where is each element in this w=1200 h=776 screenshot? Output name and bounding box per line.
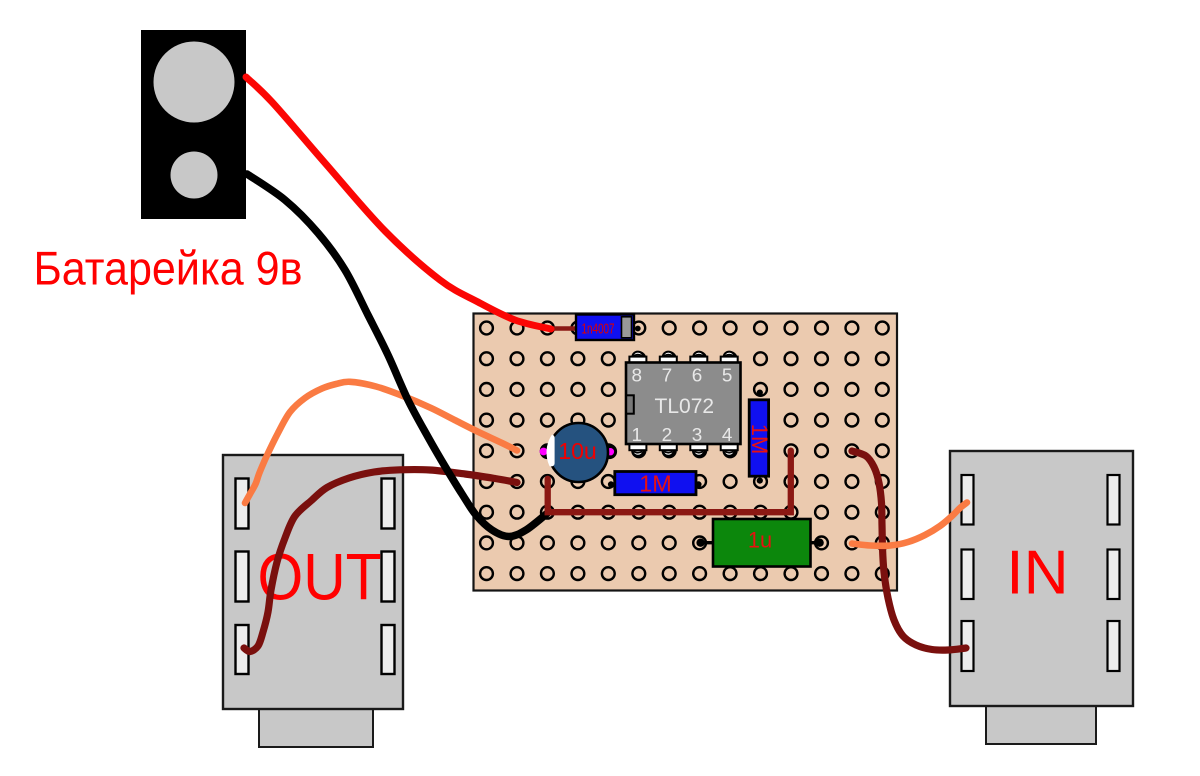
jack J2 IN lug slot (right top) [1108,475,1120,525]
capacitor C1 negative lead [540,448,548,456]
diode D1 cathode lead solder dot [635,326,641,332]
resistor R2 1M body (vertical) [749,400,768,476]
jack J1 OUT lug slot (right middle) [382,552,395,602]
jack J1 OUT lug slot (left top) [236,479,249,529]
wire: board (col2,row6) to jack J1 OUT tip lug (dark red) [244,470,517,652]
resistor R1 1M body (horizontal) [615,472,696,495]
jack J1 OUT lug slot (right top) [382,479,395,529]
capacitor C1 minus stripe [543,435,555,467]
svg-text:1u: 1u [748,528,772,553]
svg-text:7: 7 [662,366,673,387]
wire: board (col2,row5) to jack J1 OUT sleeve lug (orange) [245,382,517,503]
jack J2 IN lug slot (left middle) [962,550,974,600]
op-amp U1 pin-1 end notch [626,395,634,413]
jack J2 IN lug slot (left top) [962,475,974,525]
battery BT1 9V snap connector body [141,30,246,219]
jack J2 IN body [950,451,1133,706]
op-amp U1 pin 3 (bottom row) [690,443,707,456]
capacitor C2 left lead solder dot [696,539,704,547]
capacitor C1 positive lead hole (col5,row5) [602,444,617,459]
battery BT1 negative terminal [171,152,218,199]
op-amp U1 pin 7 (top row) [660,352,677,364]
svg-text:6: 6 [692,366,703,387]
resistor R1 left lead solder dot [608,481,614,487]
jack J1 OUT lug slot (left middle) [236,552,249,602]
diode D1 body [576,315,634,341]
wire: battery plus to diode D1 anode (red) [246,77,551,329]
op-amp U1 pin 8 (top row) [629,352,646,364]
svg-text:1n4007: 1n4007 [582,322,615,338]
op-amp U1 pin 5 (top row) [721,352,738,364]
svg-text:2: 2 [662,425,673,446]
op-amp U1 pin 2 (bottom row) [660,443,677,456]
jack J1 OUT lug slot (right bottom) [382,625,395,674]
capacitor C1 negative lead hole (col3,row5) [540,444,555,459]
svg-text:8: 8 [632,366,643,387]
jack J2 IN mounting tab [986,704,1096,744]
diode D1 cathode band [622,317,632,338]
jack J2 IN lug slot (right bottom) [1108,621,1120,671]
capacitor C2 right lead solder dot [815,539,823,547]
svg-text:Батарейка 9в: Батарейка 9в [34,243,303,296]
perfboard hole grid [480,322,889,580]
capacitor C1 positive lead [607,448,614,455]
wire: ground rail from node (col3,row6) to node (col11,row5) (dark red) [548,451,791,513]
svg-text:TL072: TL072 [655,395,715,418]
svg-text:10u: 10u [558,438,597,464]
svg-text:IN: IN [1006,539,1068,608]
op-amp U1 pin 1 (bottom row) [629,443,646,456]
svg-text:3: 3 [692,425,703,446]
op-amp U1 pin 6 (top row) [690,352,707,364]
jack J1 OUT body [223,455,403,709]
op-amp U1 TL072 body [626,363,741,445]
jack J2 IN lug slot (left bottom) [962,621,974,671]
svg-text:5: 5 [722,366,733,387]
wire: battery minus to ground junction (black) [247,174,547,537]
capacitor C2 right lead [810,541,820,544]
capacitor C2 1u film body [713,519,811,567]
resistor R2 bottom lead solder dot [757,478,763,484]
svg-text:4: 4 [722,425,733,446]
jack J2 IN lug slot (right middle) [1108,550,1120,600]
wire: board (col13,row5) to jack J2 IN tip lug (dark red) [852,451,966,650]
perfboard [474,314,898,591]
wire: diode D1 anode lead to node at hole (col3,row1) [549,326,578,331]
op-amp U1 pin 4 (bottom row) [721,443,738,456]
svg-text:1M: 1M [639,470,672,496]
svg-text:1: 1 [632,425,643,446]
jack J1 OUT lug slot (left bottom) [236,625,249,674]
resistor R2 top lead solder dot [757,390,763,396]
wire: board (col13,row8) to jack J2 IN sleeve lug (orange) [852,503,967,546]
svg-text:1M: 1M [747,424,772,455]
jack J1 OUT mounting tab [259,705,373,747]
battery BT1 positive terminal [154,42,235,123]
resistor R1 right lead solder dot [695,481,701,487]
capacitor C2 left lead [700,541,713,544]
capacitor C1 10u electrolytic body [549,423,608,482]
